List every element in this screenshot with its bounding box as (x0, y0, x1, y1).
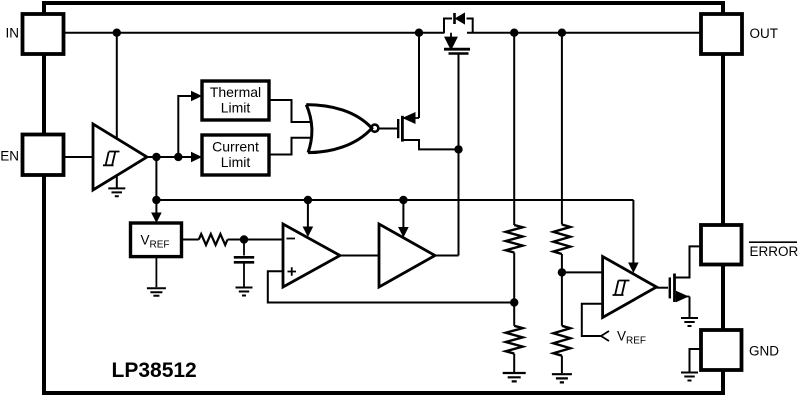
wire bias into amp2 (402, 200, 404, 229)
wire Q3 drain to ERROR pin (675, 246, 702, 277)
wire schmitt2 vref input (582, 304, 603, 336)
wire Q1 gate line (458, 54, 460, 256)
wire enable into schmitt2 (632, 200, 634, 264)
block vref (131, 223, 182, 257)
svg-text:ERROR: ERROR (750, 244, 799, 259)
wire amp1 to amp2 (340, 255, 379, 257)
wire chain1 bottom (513, 354, 515, 372)
svg-text:EN: EN (0, 149, 19, 164)
wire schmitt1 output down (155, 157, 157, 200)
wire chain2 tap to schmitt2 (562, 271, 603, 273)
block thermal limit (202, 81, 269, 120)
Q2 arrow (404, 113, 416, 123)
Q3 channel bar (673, 274, 676, 303)
svg-text:Current: Current (212, 139, 259, 155)
hysteresis glyph U5 (613, 281, 630, 296)
ground Q3 source (681, 318, 698, 326)
wire OUT rail (467, 32, 701, 34)
pin box GND (701, 330, 742, 370)
wire chain2 top (561, 33, 563, 225)
svg-text:GND: GND (749, 344, 779, 359)
wire EN to schmitt1 (64, 156, 93, 158)
wire feedback to amp1 plus (268, 271, 514, 302)
wire vref to R3 (182, 239, 199, 241)
wire IN rail (64, 32, 445, 34)
wire vref arrow stem (155, 200, 157, 215)
node OUT rail / chain1 (510, 29, 518, 37)
wire chain1 top (513, 33, 515, 225)
node logic rail amp2 (399, 196, 407, 204)
body diode D1 (455, 13, 465, 24)
wire schmitt1 supply (116, 33, 118, 139)
ground chain2 (552, 374, 572, 382)
resistor R2 chain1 bottom (506, 326, 523, 354)
node logic rail amp1 (304, 196, 312, 204)
svg-text:Thermal: Thermal (210, 84, 261, 100)
minus label U3 (287, 239, 297, 276)
wire R3 to amp1 minus (228, 239, 284, 241)
node schmitt1 out B (174, 153, 182, 161)
arrow into current limit (191, 152, 202, 162)
wire buffer output to gate line (435, 255, 459, 257)
pin box ERROR (701, 225, 742, 265)
wire Q2 drain to IN rail (418, 33, 420, 118)
NOR output bubble (371, 125, 378, 132)
wire chain2 mid (561, 254, 563, 326)
wire schmitt1 output (147, 156, 194, 158)
NOR gate U2 (306, 105, 378, 153)
Q2 channel bar (401, 116, 404, 142)
ground chain1 (503, 373, 526, 381)
resistor R5 chain2 bottom (553, 326, 570, 356)
ground GND pin (681, 373, 698, 381)
wire logic rail (156, 199, 633, 201)
arrowheads (151, 91, 639, 273)
schmitt trigger U1 (EN buffer) (93, 124, 147, 190)
arrow bias amp2 (398, 227, 409, 238)
wire Q2 source to gate line (402, 140, 458, 149)
vref chevron arrow (601, 331, 609, 341)
wire bias into amp1 (307, 200, 309, 229)
wire chain1 mid (513, 253, 515, 326)
svg-text:OUT: OUT (750, 26, 779, 41)
wire NOR to Q2 gate (378, 128, 397, 130)
pin box OUT (701, 14, 742, 54)
node OUT rail / chain2 (558, 29, 566, 37)
svg-text:Limit: Limit (221, 154, 251, 170)
resistor R3 (vref filter) (199, 234, 228, 245)
transistor Q2 (gate pull device) (398, 116, 419, 142)
Q2 gate bar (397, 119, 399, 138)
wire current limit to NOR (269, 138, 311, 155)
node schmitt1 out A (152, 153, 160, 161)
wire thermal limit to NOR (269, 100, 311, 122)
arrow bias amp1 (303, 227, 314, 238)
arrow into vref box (151, 213, 162, 224)
hysteresis glyph U1 (103, 152, 120, 166)
wire schmitt2 output to Q3 gate (657, 287, 669, 289)
Q3 gate bar (669, 277, 671, 298)
Q1 gate bar (449, 52, 469, 54)
node gate line / Q2 source (454, 145, 462, 153)
Q1 channel bar (444, 48, 470, 51)
schmitt trigger U5 (error comparator) (603, 257, 657, 318)
Q3 source lead (675, 296, 690, 298)
pass transistor Q1 (PMOS) (444, 19, 473, 33)
node R3 / C1 (240, 235, 248, 243)
node IN rail / schmitt supply (113, 29, 121, 37)
pin box EN (23, 135, 64, 176)
node IN rail / Q2 drain (415, 29, 423, 37)
capacitor C1 (234, 240, 254, 287)
svg-text:Limit: Limit (221, 100, 251, 116)
Q2 drain lead (402, 117, 419, 119)
wire chain2 bottom (561, 356, 563, 374)
pin box IN (23, 14, 64, 54)
node logic rail left (152, 196, 160, 204)
arrow into thermal limit (191, 91, 202, 101)
plus label U3 (288, 267, 297, 275)
resistor R1 chain1 top (506, 225, 523, 253)
block current limit (202, 135, 269, 175)
wire Q3 source down (689, 297, 691, 318)
wire branch to thermal limit (178, 96, 194, 157)
op-amp U3 (error amp) (283, 224, 340, 287)
wire GND pin to ground (690, 349, 702, 372)
ground for C1 (236, 288, 253, 296)
transistor Q3 (error flag NMOS) (670, 274, 690, 303)
svg-text:LP38512: LP38512 (112, 359, 197, 382)
ground for VREF (147, 257, 166, 296)
svg-text:IN: IN (6, 26, 20, 41)
resistor R4 chain2 top (553, 225, 570, 255)
node chain2 tap (558, 268, 566, 276)
node feedback tap chain1 (510, 298, 518, 306)
Q3 arrow (677, 292, 688, 302)
arrow enable schmitt2 (628, 263, 639, 274)
buffer U4 (379, 224, 435, 287)
ground for U1 (108, 176, 125, 196)
Q1 source arrow (446, 33, 457, 49)
